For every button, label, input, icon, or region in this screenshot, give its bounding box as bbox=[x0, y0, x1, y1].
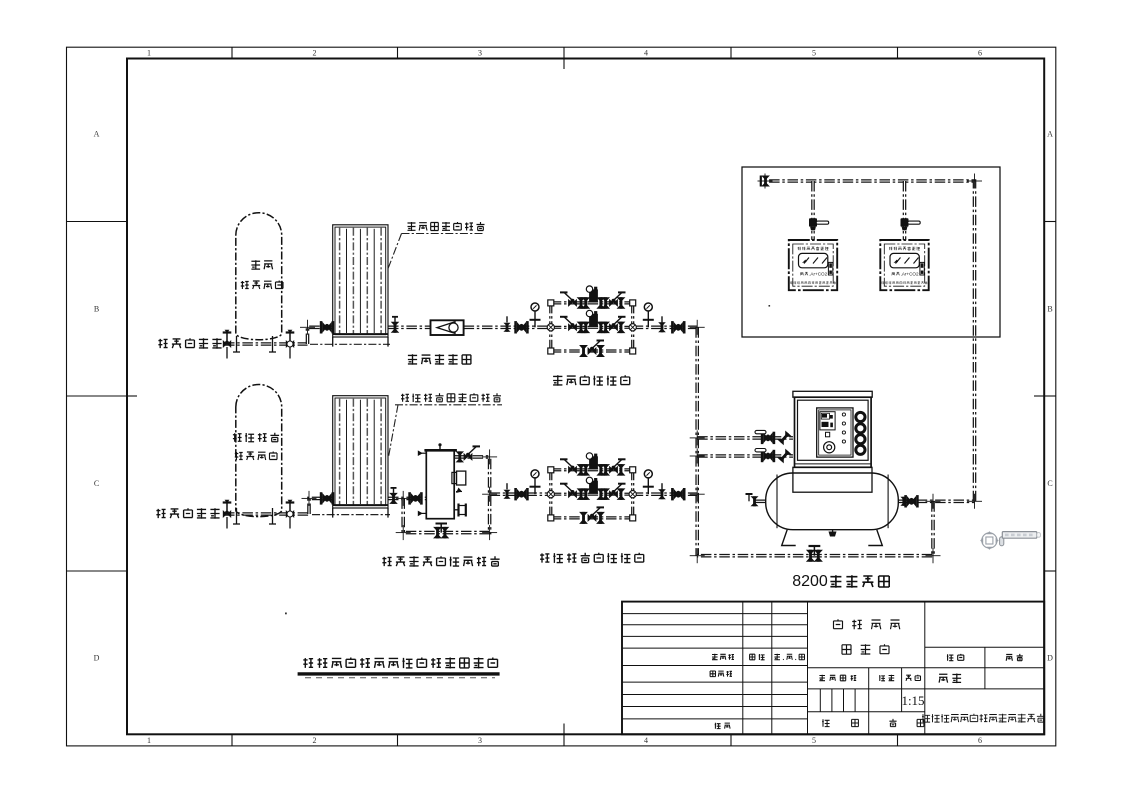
svg-text:5: 5 bbox=[812, 736, 816, 745]
svg-text:A: A bbox=[94, 130, 100, 139]
svg-text:6: 6 bbox=[978, 49, 982, 58]
svg-text:1: 1 bbox=[147, 49, 151, 58]
svg-text:6: 6 bbox=[978, 736, 982, 745]
svg-text:B: B bbox=[94, 305, 99, 314]
svg-text:4: 4 bbox=[644, 736, 648, 745]
svg-text:B: B bbox=[1047, 305, 1052, 314]
svg-text:8200: 8200 bbox=[792, 573, 828, 590]
svg-text:D: D bbox=[94, 654, 100, 663]
svg-text:Ar+CO2: Ar+CO2 bbox=[810, 271, 827, 276]
svg-text:4: 4 bbox=[644, 49, 648, 58]
svg-text:3: 3 bbox=[478, 736, 482, 745]
svg-text:C: C bbox=[1047, 479, 1052, 488]
svg-text:5: 5 bbox=[812, 49, 816, 58]
svg-text:2: 2 bbox=[313, 49, 317, 58]
svg-text:1: 1 bbox=[147, 736, 151, 745]
svg-text:C: C bbox=[94, 479, 99, 488]
svg-text:3: 3 bbox=[478, 49, 482, 58]
svg-text:A: A bbox=[1047, 130, 1053, 139]
svg-text:D: D bbox=[1047, 654, 1053, 663]
svg-text:1:15: 1:15 bbox=[901, 693, 924, 708]
svg-text:Ar+CO2: Ar+CO2 bbox=[902, 271, 919, 276]
svg-text:2: 2 bbox=[313, 736, 317, 745]
